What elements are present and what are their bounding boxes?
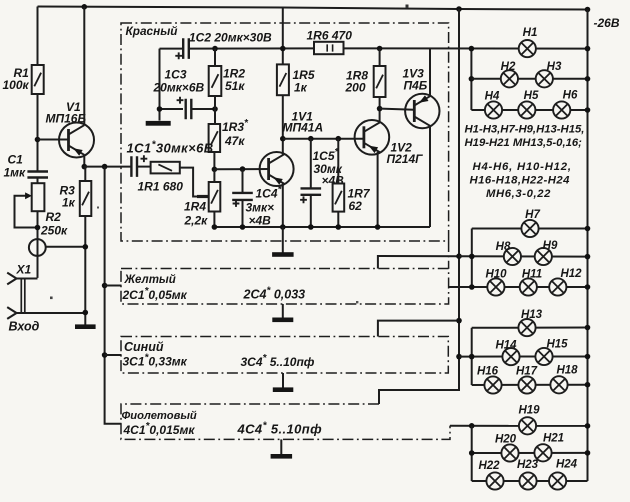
svg-text:1мк: 1мк xyxy=(4,166,27,180)
wire H8 row xyxy=(459,255,588,257)
wire 1V3 emitter up xyxy=(429,49,431,97)
svg-text:1С2 20мк×30В: 1С2 20мк×30В xyxy=(189,31,272,45)
wire V1 collector to rail xyxy=(83,7,85,125)
ground near 1C3 xyxy=(146,121,171,126)
lamp H6 xyxy=(553,101,570,118)
junction dots right bus group 4 xyxy=(585,423,591,429)
svg-text:Н2: Н2 xyxy=(501,61,516,73)
svg-text:2С1*0,05мк: 2С1*0,05мк xyxy=(122,286,188,302)
lamp H1 xyxy=(519,40,536,57)
svg-text:R2: R2 xyxy=(46,210,62,224)
capacitor C1 xyxy=(27,172,48,178)
svg-text:1R6 470: 1R6 470 xyxy=(307,29,353,43)
junction dots right bus group 3 xyxy=(585,325,591,331)
wire H13 row xyxy=(472,327,588,329)
svg-text:-26В: -26В xyxy=(594,16,620,30)
resistor 1R2 xyxy=(212,46,218,52)
junction dot H20 row / left bus xyxy=(469,450,475,456)
dashed box of yellow channel xyxy=(121,269,449,305)
transistor V1 xyxy=(59,123,94,158)
svg-text:20мк×6В: 20мк×6В xyxy=(153,81,205,95)
ground of red channel xyxy=(282,227,284,253)
svg-text:Н24: Н24 xyxy=(556,459,578,471)
ground of input xyxy=(75,324,96,329)
node V1 output xyxy=(82,164,88,170)
junction dot blue tap xyxy=(102,352,108,358)
svg-text:Н3: Н3 xyxy=(547,61,562,73)
svg-text:Н14: Н14 xyxy=(495,340,517,352)
dashed box of violet channel xyxy=(121,404,450,439)
wire V1 emitter to output node xyxy=(83,155,85,167)
svg-text:Красный: Красный xyxy=(126,24,178,38)
wire 1V1 collector xyxy=(282,139,284,155)
svg-text:Н21: Н21 xyxy=(543,433,564,445)
svg-text:Желтый: Желтый xyxy=(124,274,176,286)
node base of V1 xyxy=(35,137,41,143)
resistor 1R4 xyxy=(212,167,218,173)
svg-text:250к: 250к xyxy=(40,224,68,238)
wire output node xyxy=(84,166,131,168)
wire lamp group 1 left bus xyxy=(470,49,472,110)
lamp H13 xyxy=(518,319,535,336)
speck xyxy=(406,5,409,8)
wire common emitter rail xyxy=(214,226,430,228)
svg-text:Н11: Н11 xyxy=(522,269,542,281)
svg-text:3мк×: 3мк× xyxy=(246,201,275,215)
wire H22 row xyxy=(472,480,588,482)
wire C1 to R2 xyxy=(37,178,39,278)
svg-text:1С1*30мк×6В: 1С1*30мк×6В xyxy=(127,140,214,156)
junction dot supply bus / rail xyxy=(456,6,462,12)
svg-text:Н5: Н5 xyxy=(524,90,539,102)
junction dot V1 collector / rail xyxy=(82,4,88,10)
junction dots on rail xyxy=(212,224,218,230)
junction dots supply bus xyxy=(456,253,462,259)
wire 1V1 emitter xyxy=(282,183,284,227)
wire V1 base xyxy=(38,139,69,141)
lamp H8 xyxy=(504,248,521,265)
wire H19 feed row xyxy=(450,425,588,427)
svg-text:C1: C1 xyxy=(8,153,24,167)
capacitor 1C2 xyxy=(160,48,184,50)
junction dot R2 wiper xyxy=(35,225,41,231)
wire lamp group 2 left bus xyxy=(471,229,473,288)
wire 1R1 to 1R4 node xyxy=(180,168,209,197)
lamp H17 xyxy=(518,376,535,393)
lamp H18 xyxy=(550,376,567,393)
lamp H7 xyxy=(521,220,538,237)
wire lamp group 4 left bus xyxy=(471,426,473,481)
lamp H4 xyxy=(485,101,502,118)
capacitor 1C3 xyxy=(160,108,184,110)
svg-text:3С4* 5..10пф: 3С4* 5..10пф xyxy=(241,353,315,369)
svg-text:МП16Б: МП16Б xyxy=(46,112,87,126)
transistor 1V2 xyxy=(355,120,390,155)
wire 1C2 to 1R2 top xyxy=(189,47,314,49)
wire right -26V bus xyxy=(587,10,589,482)
svg-text:2,2к: 2,2к xyxy=(184,214,209,228)
lamp H2 xyxy=(501,70,518,87)
junction dot shield / R3 xyxy=(83,244,89,250)
wire shield tap xyxy=(46,246,86,248)
wire 1V3 collector down to common rail xyxy=(429,126,431,227)
wire H2 row xyxy=(471,78,587,80)
resistor R1 xyxy=(37,7,39,66)
junction dot H8 row / left bus xyxy=(469,254,475,260)
svg-text:Н18: Н18 xyxy=(556,365,578,377)
lamp H15 xyxy=(535,348,552,365)
svg-text:X1: X1 xyxy=(16,263,32,277)
node 1V1 collector xyxy=(280,136,286,142)
wire supply bus to lower channels xyxy=(379,9,459,404)
connector X1 pin 2 xyxy=(17,312,86,314)
wire top supply rail xyxy=(38,7,588,10)
svg-text:Н16: Н16 xyxy=(477,366,499,378)
svg-text:Н1: Н1 xyxy=(523,27,538,39)
svg-text:МП41А: МП41А xyxy=(283,121,324,135)
capacitor 1C1 xyxy=(131,156,137,177)
svg-text:Н12: Н12 xyxy=(560,268,582,280)
lamp H9 xyxy=(535,248,552,265)
svg-text:3С1*0,33мк: 3С1*0,33мк xyxy=(123,353,188,369)
svg-text:Н23: Н23 xyxy=(517,459,539,471)
junction dot right bus / rail xyxy=(585,7,591,13)
svg-text:Н22: Н22 xyxy=(478,460,500,472)
lamp H23 xyxy=(519,472,536,489)
svg-text:51к: 51к xyxy=(225,79,245,93)
wire 1V1 collector to 1V2 base xyxy=(283,138,364,140)
junction dot 1C3 left xyxy=(157,106,163,112)
resistor 1R8 xyxy=(377,46,383,52)
svg-text:200: 200 xyxy=(345,81,366,95)
junction dot to tone filters xyxy=(102,164,108,170)
svg-text:П4Б: П4Б xyxy=(404,79,428,93)
lamp H22 xyxy=(486,472,503,489)
wire 1V2 collector to 1V3 base node xyxy=(379,109,381,123)
shield circle of input cable xyxy=(29,239,46,256)
wire yellow box to supply bus xyxy=(378,256,459,269)
lamp H24 xyxy=(549,472,566,489)
svg-text:Н19-Н21 МН13,5-0,16;: Н19-Н21 МН13,5-0,16; xyxy=(465,137,583,149)
svg-text:Н8: Н8 xyxy=(496,241,511,253)
svg-text:Вход: Вход xyxy=(9,320,40,334)
svg-text:100к: 100к xyxy=(3,78,30,92)
lamp H3 xyxy=(536,70,553,87)
resistor 1R1 xyxy=(151,162,180,174)
node 1V3 base xyxy=(377,106,383,112)
resistor 1R7 xyxy=(336,136,342,142)
wire H10 row xyxy=(449,286,588,288)
wire 1V1 base xyxy=(214,168,268,170)
svg-text:Н13: Н13 xyxy=(521,309,543,321)
svg-text:Н6: Н6 xyxy=(563,90,578,102)
junction dots right bus group 1 xyxy=(585,46,591,52)
lamp H21 xyxy=(534,444,551,461)
junction dot 1C3 right xyxy=(212,106,218,112)
wire 1C1 to 1R1 xyxy=(137,166,151,168)
svg-text:1к: 1к xyxy=(294,81,308,95)
svg-text:МН6,3-0,22: МН6,3-0,22 xyxy=(486,188,551,200)
svg-text:1R4: 1R4 xyxy=(184,200,206,214)
capacitor 1C4 xyxy=(240,166,246,172)
svg-text:Н1-Н3,Н7-Н9,Н13-Н15,: Н1-Н3,Н7-Н9,Н13-Н15, xyxy=(465,124,585,136)
wire H16 row xyxy=(472,384,588,386)
svg-text:Н15: Н15 xyxy=(546,339,568,351)
svg-text:47к: 47к xyxy=(224,134,245,148)
svg-text:Н19: Н19 xyxy=(518,405,540,417)
lamp H11 xyxy=(520,278,537,295)
wire signal bus down to filters xyxy=(105,167,122,424)
vertical link between red and yellow boxes xyxy=(448,241,450,269)
svg-text:П214Г: П214Г xyxy=(387,152,424,166)
svg-text:Н10: Н10 xyxy=(485,269,507,281)
dashed box of blue channel xyxy=(121,337,448,374)
wire left leg of red box xyxy=(159,49,161,121)
resistor 1R3 xyxy=(209,124,221,152)
connector X1 pin 1 xyxy=(17,278,38,280)
junction dot yellow tap xyxy=(102,283,108,289)
ground of blue channel xyxy=(282,373,284,388)
svg-text:Н4: Н4 xyxy=(485,91,500,103)
svg-text:Н20: Н20 xyxy=(495,434,517,446)
transistor 1V3 xyxy=(405,94,439,128)
cable pair lines xyxy=(20,279,22,314)
svg-text:×4В: ×4В xyxy=(249,214,272,228)
svg-text:1С3: 1С3 xyxy=(165,68,187,82)
junction dot H10 row / left bus xyxy=(469,284,475,290)
junction dot H14 row / left bus xyxy=(469,354,475,360)
wire lamp group 3 left bus xyxy=(471,328,473,385)
lamp H14 xyxy=(502,348,519,365)
junction dots group 1 left bus xyxy=(469,46,475,52)
ground of yellow channel xyxy=(282,304,284,319)
svg-text:Фиолетовый: Фиолетовый xyxy=(122,410,197,422)
wire 1V2 emitter to rail xyxy=(377,152,379,227)
lamp H20 xyxy=(501,444,518,461)
svg-text:1R1 680: 1R1 680 xyxy=(138,180,184,194)
dashed box of red channel xyxy=(121,23,449,241)
capacitor 1C5 xyxy=(308,136,314,142)
wire H7 row xyxy=(472,228,588,230)
potentiometer R2 xyxy=(32,183,45,211)
svg-text:4С1*0,015мк: 4С1*0,015мк xyxy=(123,421,196,437)
wire H14 row xyxy=(459,356,588,358)
wire H20 row xyxy=(472,452,588,454)
resistor 1R5 xyxy=(282,8,284,65)
wire 1V3 base xyxy=(380,109,415,110)
svg-text:62: 62 xyxy=(349,199,363,213)
svg-text:Н7: Н7 xyxy=(525,209,540,221)
ground of violet channel xyxy=(280,439,282,455)
lamp H5 xyxy=(518,101,535,118)
svg-text:Н4-Н6, Н10-Н12,: Н4-Н6, Н10-Н12, xyxy=(473,161,572,173)
lamp H12 xyxy=(549,278,566,295)
lamp H19 xyxy=(519,417,536,434)
svg-text:Н9: Н9 xyxy=(543,240,558,252)
svg-text:Н16-Н18,Н22-Н24: Н16-Н18,Н22-Н24 xyxy=(470,175,571,187)
resistor R3 xyxy=(84,167,86,181)
wire tap to blue box xyxy=(105,354,122,356)
junction dot input ground xyxy=(83,310,89,316)
junction dot H19 row / left bus xyxy=(469,423,475,429)
svg-text:Н17: Н17 xyxy=(516,366,538,378)
svg-text:2С4* 0,033: 2С4* 0,033 xyxy=(243,286,306,302)
lamp H10 xyxy=(487,278,504,295)
resistor 1R6 xyxy=(314,42,344,54)
wire H4 row xyxy=(471,109,587,111)
wire tap to yellow box xyxy=(105,285,122,287)
transistor 1V1 xyxy=(260,152,294,186)
wire blue box to supply bus xyxy=(378,321,459,337)
svg-text:1к: 1к xyxy=(62,196,76,210)
svg-text:4С4* 5..10пф: 4С4* 5..10пф xyxy=(237,421,323,437)
lamp H16 xyxy=(484,376,501,393)
junction dots right bus group 2 xyxy=(585,226,591,232)
wire 1R6 output to lamps H1 row xyxy=(344,47,588,49)
